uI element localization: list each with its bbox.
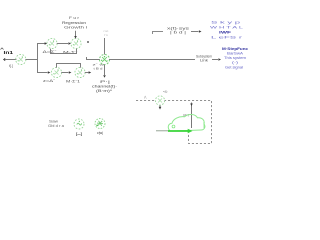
- arrowhead into op3: [48, 71, 51, 74]
- wire to blue text top right: [191, 31, 199, 33]
- svg-text:⋀: ⋀: [143, 95, 147, 99]
- svg-text:P·|: P·|: [100, 80, 110, 84]
- svg-text:Gbl d r a: Gbl d r a: [48, 124, 64, 128]
- svg-text:| b d |: | b d |: [170, 31, 186, 35]
- svg-text:Link: Link: [200, 59, 209, 63]
- svg-text:Get signal: Get signal: [225, 66, 243, 70]
- svg-text:S k y p: S k y p: [211, 21, 240, 25]
- wire from annotation down into op2: [75, 31, 77, 37]
- main output wire: [109, 59, 195, 61]
- wire gain to split node: [25, 59, 38, 61]
- svg-text:M·Σˉ1: M·Σˉ1: [66, 80, 80, 84]
- wire op3 to op4: [61, 72, 68, 74]
- multiplier op4: [75, 67, 85, 77]
- multiplier op3: [51, 67, 61, 77]
- multiplier op1: [47, 38, 57, 48]
- wire from tag down to junction: [104, 38, 106, 55]
- svg-text:(·): (·): [232, 61, 238, 65]
- dashed boundary line: [136, 101, 212, 144]
- svg-text:t[.]: t[.]: [9, 64, 13, 68]
- arrowhead into op4: [69, 71, 72, 74]
- cloud shape: [168, 114, 205, 131]
- arrowhead into op2 top: [74, 36, 77, 39]
- svg-text:(B·m)*: (B·m)*: [96, 89, 113, 93]
- wire to output arrow: [212, 59, 218, 61]
- cloud inner tick: [203, 122, 205, 128]
- svg-text:c|w|: c|w|: [97, 131, 103, 135]
- svg-text:W H T A L: W H T A L: [210, 26, 243, 30]
- bypass wire over op3 op4: [57, 64, 81, 68]
- arrowhead to goto tag: [89, 71, 92, 74]
- svg-text:Growth i: Growth i: [64, 26, 87, 30]
- tail wire into green arrow: [156, 130, 170, 132]
- svg-text:IWF: IWF: [219, 31, 231, 35]
- svg-text:z=Δˉ: z=Δˉ: [43, 79, 55, 83]
- green arrow: [168, 130, 188, 132]
- wire op1 to op2: [57, 43, 68, 45]
- arrowhead into op2: [68, 42, 71, 45]
- svg-text:M·StepFunc: M·StepFunc: [222, 47, 248, 51]
- arrowhead into op1: [45, 42, 48, 45]
- svg-text:L eFS r: L eFS r: [211, 36, 245, 40]
- cloud inner mark: [172, 125, 175, 128]
- wire junction down: [104, 65, 106, 75]
- feedback wire op2 to op1: [51, 49, 77, 54]
- svg-text:This system: This system: [224, 56, 246, 60]
- svg-text:Regression: Regression: [62, 21, 86, 25]
- arrowhead down to label: [103, 75, 106, 78]
- svg-text:⋆(t): ⋆(t): [163, 90, 168, 94]
- wire split to op1: [38, 43, 46, 45]
- stub mark right of op2: [87, 41, 89, 43]
- legend symbol 1: [74, 119, 84, 129]
- goto wire top right: [153, 32, 164, 35]
- wire op4 to goto tag: [85, 72, 89, 74]
- svg-text:channel(t)·: channel(t)·: [92, 85, 117, 89]
- svg-text:[—]: [—]: [76, 132, 82, 136]
- svg-text:t B d: t B d: [94, 67, 103, 71]
- port caret: [1, 48, 4, 50]
- input port marker: [3, 58, 5, 61]
- wire split to op3: [38, 72, 48, 74]
- wire input to gain: [5, 59, 17, 61]
- arrowhead top right: [199, 30, 202, 33]
- multiplier op2: [71, 38, 81, 48]
- svg-text:f n: f n: [104, 33, 108, 37]
- enable circle on dashed line: [155, 96, 164, 105]
- arrow below enable circle: [159, 106, 161, 108]
- sum junction op5: [100, 55, 110, 65]
- svg-text:BarSwA: BarSwA: [227, 52, 244, 56]
- wire into junction from left with elbow: [87, 57, 100, 60]
- svg-text:Saw: Saw: [49, 120, 59, 124]
- wire entering box top: [191, 103, 193, 129]
- arrowhead to output text: [218, 58, 221, 61]
- legend symbol 2: [95, 119, 105, 129]
- arrowhead entering box: [190, 104, 193, 107]
- svg-text:In1: In1: [4, 50, 14, 55]
- op-amp circle A (input operator): [16, 54, 26, 64]
- node split vertical: [37, 43, 39, 73]
- svg-text:F u r: F u r: [69, 16, 80, 20]
